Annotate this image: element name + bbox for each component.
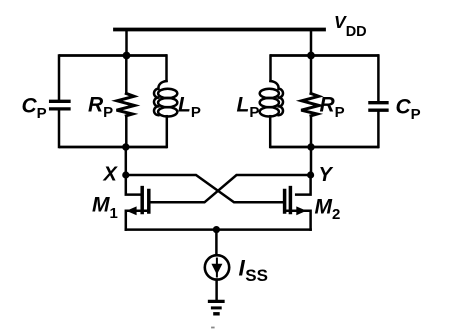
ground symbol [210, 300, 224, 303]
junction node left tank bottom [122, 143, 129, 150]
svg-text:CP: CP [22, 95, 47, 123]
svg-text:ISS: ISS [239, 256, 268, 285]
wire right tank top [271, 54, 377, 57]
power rail VDD [115, 28, 324, 32]
wire node X to M2 drain (cross coupling) [126, 175, 285, 202]
resistor R_P (right) zigzag [301, 94, 319, 116]
transistor M2 source wire [285, 211, 311, 230]
transistor M1 source arrow [126, 206, 136, 215]
wire current source to ground [215, 280, 218, 300]
wire left tank bottom to node X [125, 147, 128, 174]
svg-text:M1: M1 [92, 194, 118, 223]
transistor M2 source arrow [296, 206, 306, 215]
svg-text:LP: LP [178, 94, 201, 122]
capacitor C_P (left) wires [58, 56, 61, 101]
transistor M2 channel bar [283, 191, 287, 213]
node X dot [122, 171, 129, 178]
transistor M1 channel bar [147, 191, 151, 213]
capacitor C_P (right) bottom plate [370, 109, 387, 112]
wire tail rail [126, 228, 311, 231]
inductor L_P (left) coil [158, 81, 166, 89]
svg-text:X: X [103, 164, 119, 186]
capacitor C_P (left) bottom plate [51, 107, 69, 110]
current source ISS arrow [216, 259, 218, 277]
wire right tank bottom [271, 146, 377, 149]
svg-text:LP: LP [237, 94, 260, 122]
wire tail node to current source [215, 230, 218, 255]
transistor M1 gate bar [140, 188, 144, 213]
junction node left tank top [123, 52, 131, 60]
inductor L_P (left) wires [165, 56, 168, 82]
current source ISS circle [205, 255, 229, 279]
svg-text:CP: CP [396, 96, 421, 124]
svg-text:RP: RP [88, 94, 113, 122]
wire right tank bottom to node Y [310, 147, 313, 174]
svg-text:M2: M2 [315, 196, 341, 224]
resistor R_P (left) wires [125, 56, 128, 94]
junction node tail [213, 226, 220, 233]
transistor M2 gate bar [289, 188, 293, 213]
svg-text:VDD: VDD [334, 12, 367, 40]
node Y dot [307, 171, 314, 178]
transistor M1 source wire [126, 211, 149, 230]
wire left tank top [60, 54, 165, 57]
capacitor C_P (left) top plate [51, 100, 69, 103]
svg-text:Y: Y [319, 164, 334, 186]
svg-text:RP: RP [320, 94, 345, 122]
inductor L_P (right) coil [271, 81, 279, 89]
scan speck near bottom [212, 327, 214, 329]
resistor R_P (right) wires [310, 56, 313, 94]
capacitor C_P (right) top plate [370, 101, 387, 104]
wire left tank bottom [60, 146, 165, 149]
resistor R_P (left) zigzag [117, 94, 135, 116]
wire M1 drain to node Y (cross coupling) [149, 175, 311, 202]
wire VDD rail to left tank [125, 30, 128, 56]
junction node right tank top [307, 52, 315, 60]
transistor M1 gate wire from node X [126, 175, 140, 195]
inductor L_P (right) wires [269, 56, 272, 82]
transistor M2 gate wire from node Y [296, 175, 310, 195]
capacitor C_P (right) wires [377, 56, 380, 102]
junction node right tank bottom [307, 143, 314, 150]
wire VDD rail to right tank [310, 30, 313, 56]
